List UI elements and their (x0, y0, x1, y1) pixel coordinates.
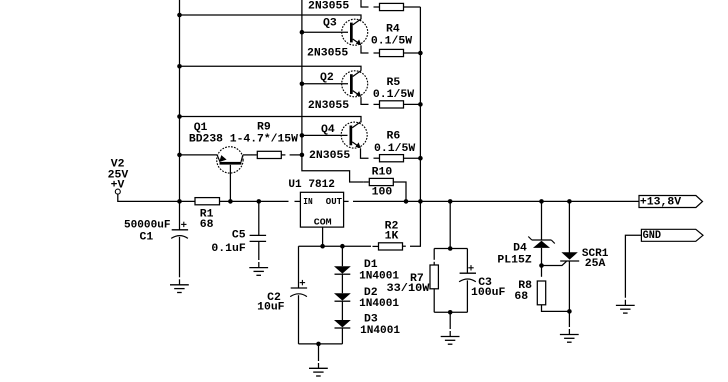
svg-text:2N3055: 2N3055 (308, 0, 349, 12)
wire (541, 201, 543, 240)
svg-text:2N3055: 2N3055 (309, 149, 350, 162)
resistor R7 (430, 265, 438, 289)
node GND tag (641, 229, 703, 241)
junction (320, 244, 325, 249)
wire R2 to output rail (410, 201, 420, 246)
wire Q2 emitter (361, 97, 369, 104)
svg-text:50000uF: 50000uF (124, 218, 171, 231)
wire (258, 201, 260, 235)
svg-text:BD238 1-4.7*/15W: BD238 1-4.7*/15W (189, 132, 298, 145)
junction (300, 30, 305, 35)
svg-text:OUT: OUT (326, 196, 342, 207)
svg-text:R4: R4 (386, 22, 400, 35)
transistor Q3 (342, 19, 368, 45)
resistor (top 2N3055 emitter) (374, 6, 380, 8)
wire GND tag to ground (625, 235, 641, 297)
resistor R9 (251, 154, 256, 156)
wire main line (220, 200, 289, 202)
svg-text:1N4001: 1N4001 (359, 270, 399, 283)
junction (300, 82, 305, 87)
wire (341, 328, 343, 344)
svg-text:C1: C1 (140, 231, 154, 244)
wire base rail (302, 0, 363, 182)
wire Q1 emitter (180, 154, 218, 156)
wire top emitter (361, 0, 369, 7)
svg-text:Q4: Q4 (321, 123, 335, 136)
junction (177, 114, 182, 119)
svg-text:1N4001: 1N4001 (360, 324, 400, 337)
svg-text:68: 68 (200, 218, 214, 231)
wire (433, 249, 435, 260)
ground (616, 304, 635, 306)
diode D1 (334, 266, 351, 273)
svg-text:0.1/5W: 0.1/5W (373, 88, 414, 101)
junction (404, 199, 409, 204)
junction (567, 309, 572, 314)
svg-text:0.1/5W: 0.1/5W (371, 35, 412, 48)
transistor Q1 (217, 147, 243, 173)
junction (177, 199, 182, 204)
svg-text:R6: R6 (387, 130, 401, 143)
wire (298, 295, 300, 344)
wire (394, 182, 406, 201)
svg-text:1N4001: 1N4001 (359, 297, 399, 310)
op-amp U1 7812 body (300, 192, 343, 227)
thyristor SCR1 (561, 252, 577, 259)
wire (341, 302, 343, 320)
wire Q3 emitter (361, 46, 369, 54)
capacitor C2 (291, 287, 307, 289)
wire Q1 collector (243, 154, 252, 156)
svg-text:Q3: Q3 (323, 17, 337, 30)
wire (179, 237, 181, 277)
wire U1 OUT (344, 200, 349, 202)
wire (568, 261, 570, 311)
wire (466, 249, 468, 274)
svg-text:33/10W: 33/10W (387, 282, 430, 295)
svg-text:1K: 1K (385, 230, 399, 243)
ground (249, 267, 268, 269)
wire (542, 305, 570, 312)
wire (290, 154, 302, 156)
junction (177, 64, 182, 69)
junction (539, 263, 544, 268)
node +13,8V tag (639, 196, 703, 208)
wire (449, 312, 451, 329)
wire U1 COM (322, 227, 324, 246)
wire SCR1 gate (542, 261, 567, 265)
wire Q1 base (229, 165, 231, 202)
wire (299, 343, 343, 345)
junction (567, 199, 572, 204)
svg-text:PL15Z: PL15Z (497, 253, 531, 266)
svg-text:+V: +V (111, 179, 125, 192)
wire (541, 248, 543, 266)
svg-text:68: 68 (514, 290, 528, 303)
svg-text:Q2: Q2 (320, 71, 334, 84)
wire COM node (299, 245, 372, 247)
resistor R1 (195, 198, 220, 205)
junction (418, 156, 423, 161)
wire Q2 base (302, 83, 348, 85)
wire emitter rail (419, 7, 421, 201)
wire R7C3 top bar (434, 248, 467, 250)
svg-text:R5: R5 (387, 76, 401, 89)
wire (258, 262, 260, 268)
wire (295, 200, 301, 202)
wire (541, 266, 543, 277)
wire (433, 289, 435, 313)
wire (466, 280, 468, 312)
diode D3 (334, 320, 351, 327)
junction (418, 102, 423, 107)
wire (404, 103, 421, 105)
junction (300, 133, 305, 138)
wire (568, 329, 570, 335)
svg-text:100: 100 (372, 185, 393, 198)
svg-text:C5: C5 (232, 228, 246, 241)
junction (177, 13, 182, 18)
resistor R8 (537, 281, 545, 305)
junction (257, 199, 262, 204)
junction (418, 199, 423, 204)
diode D2 (334, 293, 351, 300)
junction (448, 199, 453, 204)
svg-text:COM: COM (314, 217, 332, 228)
wire +V input rail (179, 0, 181, 230)
wire Q3 collector (180, 15, 362, 19)
svg-text:0.1uF: 0.1uF (211, 242, 245, 255)
wire Q2 collector (180, 66, 362, 71)
svg-text:2N3055: 2N3055 (308, 99, 349, 112)
junction (177, 153, 182, 158)
svg-text:+13,8V: +13,8V (640, 196, 681, 209)
junction (448, 246, 453, 251)
junction (448, 310, 453, 315)
wire (449, 331, 451, 337)
svg-text:R10: R10 (372, 166, 393, 179)
svg-text:GND: GND (643, 229, 662, 242)
wire (404, 52, 421, 54)
svg-text:2N3055: 2N3055 (307, 47, 348, 60)
junction (539, 199, 544, 204)
wire (318, 363, 320, 368)
svg-text:25A: 25A (585, 257, 606, 270)
wire (404, 6, 421, 8)
wire R7C3 bottom bar (434, 311, 467, 313)
transistor Q2 (342, 71, 368, 97)
svg-text:IN: IN (303, 196, 313, 207)
wire (568, 311, 570, 327)
wire (179, 279, 181, 285)
svg-text:10uF: 10uF (257, 300, 285, 313)
resistor R6 (374, 157, 380, 159)
wire Q3 base (302, 31, 348, 33)
diode D4 (zener) (532, 239, 552, 241)
capacitor C5 (250, 234, 267, 236)
wire (281, 154, 285, 156)
junction (340, 244, 345, 249)
wire Q4 collector (180, 117, 362, 123)
wire Q4 emitter (361, 148, 369, 158)
transistor Q4 (341, 122, 367, 148)
wire R2 stub (402, 245, 406, 247)
wire (298, 246, 300, 288)
capacitor C3 (460, 272, 476, 274)
wire (118, 194, 195, 201)
ground (560, 334, 579, 336)
ground (441, 336, 460, 338)
capacitor C1 (172, 229, 188, 231)
svg-text:U1 7812: U1 7812 (288, 178, 335, 191)
wire diode chain (341, 246, 343, 266)
wire output line (353, 200, 639, 202)
wire (318, 344, 320, 361)
wire (433, 262, 435, 265)
ground (309, 367, 328, 369)
wire (568, 201, 570, 253)
wire (404, 157, 421, 159)
svg-text:100uF: 100uF (471, 286, 505, 299)
wire (341, 275, 343, 294)
ground (170, 284, 189, 286)
wire Q4 base (302, 134, 348, 136)
resistor R10 (363, 181, 369, 183)
wire (258, 241, 260, 260)
junction (418, 51, 423, 56)
svg-text:0.1/5W: 0.1/5W (374, 142, 415, 155)
wire (449, 201, 451, 248)
terminal V2 +V (115, 189, 120, 194)
junction (316, 342, 321, 347)
junction (300, 153, 305, 158)
resistor R5 (374, 103, 380, 105)
resistor R2 (373, 245, 379, 247)
resistor R4 (374, 52, 380, 54)
wire (624, 300, 626, 306)
junction (228, 199, 233, 204)
